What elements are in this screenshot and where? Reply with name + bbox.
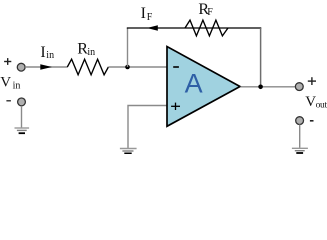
label Vin xyxy=(0,75,20,92)
label + (Vin positive) xyxy=(4,58,11,65)
ground (non-inverting input) xyxy=(120,149,137,154)
wire Vout- to ground xyxy=(299,125,301,148)
terminal Vout+ xyxy=(295,83,303,91)
label - (inverting input pin) xyxy=(173,66,179,68)
svg-text:in: in xyxy=(46,50,54,61)
label - (Vout negative) xyxy=(310,120,314,122)
resistor RF xyxy=(185,20,228,36)
current arrow Iin xyxy=(40,64,52,70)
op-amp A xyxy=(167,47,240,127)
wire Vin+ to Rin xyxy=(25,66,67,68)
wire non-inverting input to ground riser xyxy=(128,106,168,149)
svg-text:A: A xyxy=(185,68,203,98)
node inverting input junction xyxy=(125,65,130,70)
label + (Vout positive) xyxy=(308,77,316,85)
svg-text:F: F xyxy=(147,12,153,23)
svg-text:V: V xyxy=(0,75,11,91)
svg-text:I: I xyxy=(40,44,45,61)
svg-text:I: I xyxy=(141,5,146,22)
label Vout xyxy=(305,94,327,111)
resistor Rin xyxy=(67,59,108,75)
wire op-amp output xyxy=(241,86,296,88)
label IF xyxy=(141,5,153,23)
label RF xyxy=(198,1,213,18)
svg-text:V: V xyxy=(305,94,316,110)
terminal Vout- xyxy=(296,117,304,125)
wire feedback top xyxy=(127,27,261,29)
wire Vin- to ground xyxy=(21,106,23,128)
ground (Vin) xyxy=(15,128,30,133)
label - (Vin negative) xyxy=(6,100,10,102)
terminal Vin- xyxy=(18,98,26,106)
svg-text:in: in xyxy=(13,80,21,91)
label Iin xyxy=(40,44,54,61)
svg-text:F: F xyxy=(207,7,213,18)
label Rin xyxy=(77,41,95,58)
terminal Vin+ xyxy=(17,63,25,71)
svg-text:out: out xyxy=(316,101,327,111)
wire feedback right vertical xyxy=(260,28,262,87)
label + (non-inverting input pin) xyxy=(171,103,180,110)
wire Rin to op-amp inverting input xyxy=(108,66,167,68)
current arrow IF xyxy=(147,25,158,31)
ground (Vout) xyxy=(292,148,308,153)
svg-text:in: in xyxy=(87,47,95,58)
node output junction xyxy=(258,85,263,90)
wire feedback left vertical xyxy=(127,28,129,67)
